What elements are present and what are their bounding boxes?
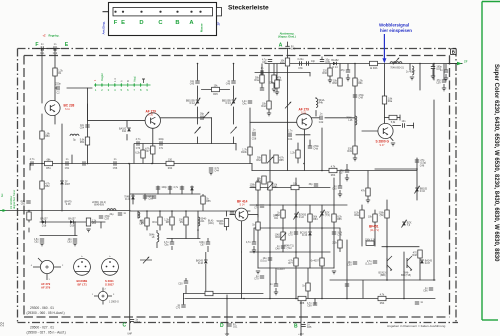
ground 2x400T [410, 77, 414, 80]
svg-text:F: F [35, 42, 38, 48]
svg-text:ZF: ZF [464, 60, 468, 64]
svg-text:AF 279: AF 279 [41, 285, 51, 289]
resistor R10b [241, 147, 252, 155]
svg-text:R61: R61 [358, 82, 363, 85]
diode D23 [300, 231, 312, 237]
resistor R72 [152, 217, 162, 225]
svg-text:C79: C79 [254, 277, 259, 280]
svg-text:1k R4b: 1k R4b [370, 67, 378, 70]
svg-text:(11,8 V): (11,8 V) [370, 228, 379, 232]
svg-text:L16: L16 [348, 119, 353, 122]
ground C41b [444, 78, 448, 81]
resistor R94 in line 4,7k [378, 293, 386, 305]
resistor R90 [354, 210, 364, 218]
wire stub R31 [261, 64, 263, 76]
capacitor C67b lower [199, 241, 210, 247]
svg-text:R65: R65 [279, 159, 284, 162]
svg-text:C96: C96 [423, 289, 428, 292]
coil L8 lower [149, 233, 159, 242]
ground mid1 [256, 271, 260, 274]
capacitor C35b top [341, 69, 351, 72]
capacitor C64 [118, 212, 127, 215]
transistor S2800G Q4 [378, 123, 393, 138]
wire stub C35 [321, 57, 323, 60]
svg-text:D18: D18 [42, 225, 47, 228]
capacitor C4b emitter [288, 129, 293, 141]
svg-text:S 31: S 31 [301, 111, 307, 114]
svg-text:S 30: S 30 [148, 113, 154, 116]
green adjustment scale [94, 73, 151, 92]
resistor R71 top [370, 61, 378, 70]
svg-text:4,7n: 4,7n [30, 158, 35, 161]
svg-text:BA157: BA157 [68, 217, 76, 220]
svg-text:4,7k: 4,7k [331, 165, 336, 168]
svg-text:R83: R83 [275, 236, 280, 239]
svg-text:(29300 - 060 . 05 H-Ausf.): (29300 - 060 . 05 H-Ausf.) [27, 311, 65, 315]
ground R36 [328, 80, 332, 83]
svg-text:C4b: C4b [288, 138, 293, 141]
svg-text:22: 22 [0, 321, 5, 326]
resistor R68 [329, 165, 337, 177]
svg-text:C37: C37 [339, 171, 344, 174]
capacitor C94 [347, 261, 357, 267]
connector strip right tab [217, 8, 222, 16]
svg-text:1 3: 1 3 [113, 78, 117, 82]
svg-text:4007: 4007 [65, 183, 71, 186]
capacitor C35 top [320, 58, 331, 64]
svg-text:Super Color 6230, 6430, 6530,: Super Color 6230, 6430, 6530, W 6530, 82… [493, 64, 499, 262]
trimmer R81 [267, 182, 278, 190]
svg-text:F: F [114, 20, 118, 26]
ground R89 [366, 200, 370, 203]
svg-text:10n: 10n [402, 120, 407, 123]
svg-text:C99: C99 [307, 304, 312, 307]
svg-text:D: D [139, 20, 143, 26]
svg-text:4,7k: 4,7k [380, 293, 385, 296]
resistor R1 base divider [53, 68, 64, 76]
svg-text:220k: 220k [269, 81, 275, 84]
capacitor C54 [80, 124, 90, 130]
ground R37 [275, 92, 279, 95]
coil L5 [70, 134, 79, 141]
capacitor C96 [423, 287, 433, 293]
resistor R65 [274, 155, 285, 163]
capacitor C48 [353, 94, 365, 100]
inductor 2x400T [406, 66, 416, 75]
trimmer pot tuning [140, 257, 152, 264]
coil 7046-090-31 [390, 58, 404, 70]
svg-text:A: A [279, 43, 283, 49]
trimmer cap below D13 [231, 127, 237, 134]
capacitor C40 on node A [285, 45, 296, 51]
resistor R61 [353, 78, 364, 86]
svg-text:Wobblersignal: Wobblersignal [379, 23, 409, 28]
svg-text:S 47: S 47 [380, 144, 386, 147]
inner frame right dashed [449, 56, 451, 318]
resistor R93 [379, 210, 390, 218]
svg-text:011: 011 [201, 220, 205, 223]
svg-text:C70: C70 [176, 306, 181, 309]
green registration vertical line right [481, 2, 483, 321]
resistor R31a [254, 75, 264, 83]
svg-text:D 14: D 14 [332, 66, 338, 69]
capacitor C99 bottom [307, 302, 317, 308]
pinout S case [102, 256, 119, 275]
outer frame left dash-dot [17, 49, 19, 323]
pot arrow R66 [144, 157, 273, 164]
svg-text:C7b: C7b [136, 147, 141, 150]
resistor R96 under bus [302, 283, 310, 291]
capacitor C67 [139, 220, 149, 226]
resistor R50 [40, 131, 51, 139]
svg-text:R3a: R3a [254, 79, 259, 82]
svg-text:D 23: D 23 [302, 234, 308, 237]
capacitor C80 upper [332, 185, 342, 191]
resistor R80 [250, 182, 261, 190]
svg-text:S 11: S 11 [65, 108, 70, 111]
svg-text:R4a: R4a [388, 100, 393, 103]
ground C26 [252, 250, 256, 253]
svg-text:R81: R81 [273, 186, 278, 189]
svg-text:D11: D11 [122, 130, 127, 133]
svg-text:D 13: D 13 [226, 102, 232, 105]
svg-text:100k 3,3k: 100k 3,3k [365, 238, 376, 241]
svg-text:C54: C54 [80, 126, 85, 129]
svg-text:BF451: BF451 [369, 224, 379, 228]
label BF451 red [369, 224, 379, 232]
svg-text:BA157: BA157 [40, 217, 48, 220]
svg-text:R4d: R4d [261, 105, 266, 108]
wire stub C87 [275, 268, 277, 284]
ground C44 [209, 172, 213, 175]
svg-text:C4a: C4a [313, 147, 318, 150]
svg-text:C48: C48 [358, 96, 363, 99]
svg-text:C40: C40 [291, 48, 296, 51]
svg-text:C45: C45 [190, 82, 195, 85]
resistor R45 [212, 84, 220, 96]
capacitor C4d collector [319, 112, 324, 124]
svg-text:Steckerleiste: Steckerleiste [228, 4, 269, 11]
capacitor C97 [415, 301, 424, 304]
transistor BF414 Q5 [235, 208, 248, 221]
capacitor C59 [99, 215, 111, 221]
connector strip antenna lead [103, 11, 109, 13]
ground mid2 [332, 271, 336, 274]
resistor R53 left cluster [140, 218, 149, 226]
diode D22 [293, 212, 306, 220]
svg-text:C93: C93 [347, 263, 352, 266]
svg-text:C58: C58 [252, 137, 257, 140]
wire stub R36 [329, 64, 331, 69]
resistor R89 upper [361, 188, 370, 196]
resistor R49 [347, 146, 357, 154]
svg-text:29300 - 060 . 01: 29300 - 060 . 01 [30, 306, 54, 310]
svg-text:47p: 47p [341, 69, 346, 72]
svg-text:R55: R55 [206, 200, 211, 203]
svg-text:B: B [452, 50, 455, 55]
resistor R4e emitter [290, 150, 300, 158]
capacitor C45 [190, 80, 200, 86]
ground C47 [431, 76, 435, 79]
svg-text:C12: C12 [53, 52, 58, 55]
varicap diode D15 [414, 186, 427, 194]
capacitor C43 [158, 138, 164, 150]
capacitor C78 [275, 245, 285, 251]
resistor R10k inline [291, 182, 299, 189]
coil L16 mid [346, 116, 357, 125]
capacitor C79 [254, 275, 264, 281]
svg-text:C74: C74 [254, 206, 259, 209]
svg-text:D 12: D 12 [190, 102, 196, 105]
ground C87 [274, 292, 278, 295]
varicap diode D12 BB105B [186, 98, 200, 106]
svg-text:R51: R51 [46, 167, 51, 170]
label AF279 No2 red [299, 107, 310, 114]
ground C62 [40, 243, 44, 246]
svg-text:R9b: R9b [380, 302, 385, 305]
diode D26 BA243 [420, 259, 432, 265]
resistor R58 [86, 218, 97, 226]
capacitor C39a right [436, 79, 446, 85]
capacitor C33 [260, 88, 264, 90]
svg-text:R88: R88 [300, 302, 305, 305]
diode D25 [401, 220, 411, 228]
svg-text:B: B [175, 20, 179, 26]
capacitor C87 under [270, 283, 278, 286]
resistor R57 [27, 212, 31, 220]
outer frame right dash-dot [455, 49, 457, 323]
resistor R52 [40, 181, 51, 189]
svg-text:(T1d: (T1d [287, 248, 292, 250]
pinout D2909G case [92, 288, 119, 305]
wire stub C39 [443, 64, 445, 81]
svg-text:R8b: R8b [219, 223, 224, 226]
capacitor C26 mid [246, 241, 256, 244]
resistor R63 [256, 176, 266, 184]
capacitor C62 [34, 238, 44, 244]
inner frame top dashed [24, 55, 450, 57]
svg-text:R36: R36 [322, 72, 327, 75]
capacitor C74 [254, 204, 264, 210]
connector pin dot extra A [199, 11, 201, 13]
svg-text:Masse: Masse [200, 23, 204, 32]
resistor R62 [256, 155, 266, 163]
diode BA182 D14 [331, 59, 339, 69]
resistor R40 node A [280, 58, 290, 66]
capacitor C75 [288, 231, 298, 237]
capacitor C95 [365, 260, 377, 266]
outer frame top dash-dot [18, 48, 457, 50]
green ZF input arrow [0, 210, 5, 212]
pinout BC case [74, 256, 91, 275]
blue arrow wobbler injection [382, 34, 386, 63]
svg-text:R6b: R6b [331, 174, 336, 177]
capacitor C56 [113, 158, 118, 170]
svg-text:abgleichen Tuner: abgleichen Tuner [13, 190, 16, 209]
svg-text:D-16: D-16 [198, 262, 204, 265]
resistor R87 [288, 258, 298, 266]
ground R4d [267, 113, 271, 116]
svg-text:4,7n: 4,7n [246, 241, 251, 244]
capacitor C25 mid cluster [309, 183, 319, 186]
svg-text:UHF: UHF [127, 334, 132, 336]
wire stub R49 [354, 140, 356, 146]
diode D20 [124, 195, 135, 201]
connector pin F [114, 11, 116, 13]
coil L12 [316, 99, 325, 108]
svg-text:C67: C67 [200, 243, 205, 246]
svg-text:B: B [126, 80, 130, 82]
capacitor C68 [156, 186, 168, 189]
svg-text:R44: R44 [168, 167, 173, 170]
trimmer R83 [275, 232, 287, 240]
svg-text:0+4007: 0+4007 [311, 259, 320, 262]
wire L8 stub [156, 230, 158, 233]
svg-text:100p: 100p [158, 138, 164, 141]
inner frame left dashed [23, 56, 25, 318]
pinout AF279 case [31, 258, 64, 281]
svg-text:S 2817: S 2817 [105, 282, 114, 286]
resistor R51 [45, 158, 53, 170]
resistor R55 cluster2 [201, 196, 211, 204]
resistor R88 in line [298, 296, 306, 305]
svg-text:R77: R77 [288, 262, 293, 265]
trimmer arrow near L12 [285, 102, 291, 109]
wire stub C26 [253, 228, 255, 242]
svg-text:(Kapaz.-Diod.): (Kapaz.-Diod.) [278, 35, 296, 39]
svg-text:C75: C75 [288, 233, 293, 236]
capacitor C44 below bus [209, 167, 220, 173]
label BC238 red [64, 104, 75, 111]
label S2800G red [376, 140, 390, 147]
capacitor C63 [67, 238, 77, 244]
capacitor C93 [345, 284, 349, 286]
resistor R12 [135, 150, 145, 158]
resistor R54 [80, 137, 90, 145]
svg-text:C65: C65 [307, 326, 312, 329]
connector pin E [122, 11, 124, 13]
capacitor C57 input [20, 200, 30, 206]
capacitor C2 base [55, 83, 61, 95]
capacitor C46a [226, 80, 236, 86]
capacitor C6c lower [164, 241, 174, 247]
svg-text:C3b: C3b [298, 67, 303, 70]
green registration bracket top-right [482, 1, 500, 3]
svg-text:0,7n: 0,7n [288, 129, 293, 132]
resistor R70b stub [389, 115, 397, 124]
svg-text:8049-609: 8049-609 [94, 205, 104, 207]
capacitor C11 on node F [40, 43, 45, 55]
svg-text:(29500 - 027 . 05 n - Ausf.): (29500 - 027 . 05 n - Ausf.) [27, 331, 66, 335]
svg-text:C63: C63 [67, 240, 72, 243]
resistor R42 [145, 146, 155, 154]
connector strip outer box [109, 3, 217, 36]
svg-text:R4b: R4b [319, 102, 324, 105]
svg-text:C35: C35 [325, 61, 330, 64]
svg-text:E: E [65, 42, 69, 48]
svg-text:D 22: D 22 [299, 216, 305, 219]
svg-text:0,22u: 0,22u [298, 58, 305, 61]
svg-text:R31: R31 [152, 221, 157, 224]
capacitor C51 [65, 158, 70, 170]
svg-text:1,2k: 1,2k [290, 151, 295, 154]
transistor symbol Q7 small [401, 256, 412, 277]
ground R31b [272, 89, 276, 92]
capacitor C66 [143, 195, 155, 201]
svg-text:2x 400/T: 2x 400/T [406, 71, 416, 74]
capacitor C70 [180, 187, 184, 189]
diode D19 BA157 [68, 217, 76, 227]
svg-text:C48: C48 [275, 247, 280, 250]
resistor R76 [252, 222, 260, 230]
svg-text:D 16: D 16 [420, 190, 426, 193]
ground S2800 emitter [391, 143, 395, 146]
capacitor C36 [298, 58, 305, 70]
ground C80 [338, 194, 342, 197]
svg-text:A: A [120, 80, 124, 82]
diode D16 lower [196, 259, 208, 265]
green ZF out arrow [457, 60, 468, 66]
capacitor C12 on node E [53, 43, 58, 55]
svg-text:BF LT1: BF LT1 [78, 282, 88, 286]
svg-text:R48: R48 [412, 254, 417, 257]
svg-text:hier einspeisen: hier einspeisen [380, 28, 412, 33]
corner label B box [451, 49, 457, 55]
svg-text:R52: R52 [45, 185, 50, 188]
svg-text:E: E [121, 20, 125, 26]
svg-text:C30: C30 [178, 282, 183, 285]
transistor AF279 Q3 [297, 114, 312, 129]
capacitor C69 [168, 186, 179, 189]
svg-text:C39: C39 [436, 81, 441, 84]
svg-text:0+4007: 0+4007 [277, 269, 285, 271]
capacitor C98 bottom left stub [176, 304, 186, 310]
ground C39 [442, 88, 446, 91]
outer frame bottom dash-dot [18, 322, 459, 324]
svg-text:bei: bei [1, 193, 4, 197]
svg-text:1 2909 G: 1 2909 G [109, 301, 119, 304]
capacitor C41 [136, 138, 141, 150]
coupling cap C30p collector [200, 112, 209, 120]
capacitor C71 [178, 281, 188, 285]
capacitor C65 at node B [298, 323, 312, 336]
coil L7 input [107, 209, 116, 216]
connector pin C [159, 11, 161, 13]
svg-text:Regler: Regler [100, 73, 104, 81]
svg-text:C4d: C4d [319, 121, 324, 124]
wire stub R55 [202, 194, 204, 196]
label AF279 red [146, 109, 157, 116]
resistor R60 [332, 78, 342, 86]
svg-text:30p: 30p [200, 112, 205, 115]
svg-text:R62: R62 [256, 159, 261, 162]
svg-text:R84: R84 [313, 218, 318, 221]
diode D18 BA157 [40, 217, 48, 227]
capacitor C58a [30, 158, 35, 166]
capacitor C53 at node C [127, 318, 140, 335]
capacitor C4a emitter [308, 145, 320, 151]
resistor R84 [308, 214, 318, 222]
resistor R36 top [322, 68, 332, 76]
ground C35b [346, 78, 350, 81]
svg-text:(100-): (100-) [208, 223, 214, 225]
transistor AF279 Q2 [145, 113, 160, 128]
wire x205 drop [205, 252, 207, 260]
svg-text:+Z: +Z [43, 34, 47, 38]
resistor R31b [272, 75, 282, 83]
ground C63 [73, 243, 77, 246]
svg-text:R85: R85 [337, 218, 342, 221]
